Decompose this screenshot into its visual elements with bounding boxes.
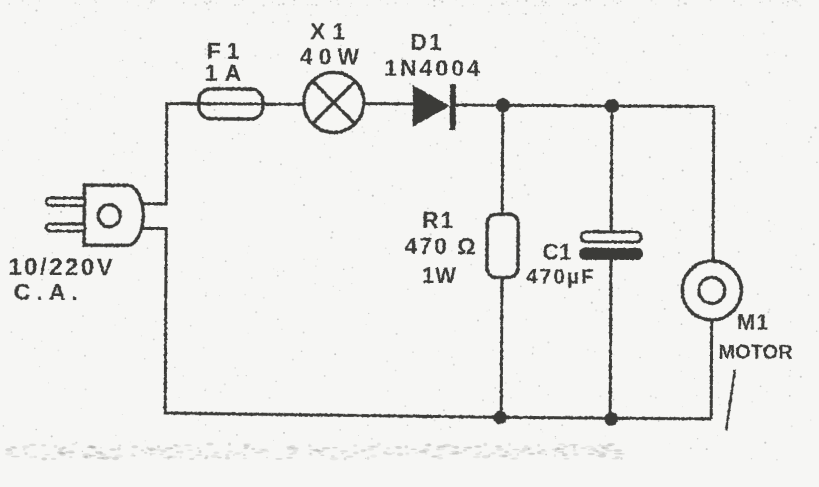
capacitor C1 bbox=[579, 232, 643, 260]
junction: node at C1 top bbox=[605, 99, 619, 113]
svg-text:D1: D1 bbox=[410, 29, 444, 55]
junction: node at R1 bottom bbox=[493, 410, 507, 424]
wire: X1 to D1 bbox=[365, 102, 413, 105]
junction: node at C1 bottom bbox=[604, 412, 618, 426]
label 40W bbox=[300, 43, 365, 69]
label R1 bbox=[422, 207, 456, 233]
AC plug body bbox=[84, 185, 143, 245]
wire: R1 branch top bbox=[501, 105, 505, 214]
label F1 bbox=[207, 38, 246, 64]
fuse F1 bbox=[199, 89, 263, 119]
svg-text:1A: 1A bbox=[205, 60, 249, 86]
label M1 bbox=[737, 310, 770, 335]
label 470µF bbox=[526, 265, 596, 288]
svg-text:470 Ω: 470 Ω bbox=[404, 233, 477, 259]
svg-text:40W: 40W bbox=[300, 43, 365, 69]
wire: motor bottom to bottom rail bbox=[710, 319, 714, 418]
svg-text:C1: C1 bbox=[542, 239, 572, 265]
svg-text:10/220V: 10/220V bbox=[8, 254, 115, 282]
label 10/220V bbox=[8, 254, 115, 282]
plug prong lower bbox=[46, 224, 85, 231]
svg-text:MOTOR: MOTOR bbox=[718, 341, 793, 363]
label X1 bbox=[310, 18, 352, 44]
wire: plug lower terminal bbox=[140, 227, 167, 230]
svg-text:R1: R1 bbox=[422, 207, 456, 233]
label D1 bbox=[410, 29, 444, 55]
svg-text:X1: X1 bbox=[310, 18, 352, 44]
svg-text:1W: 1W bbox=[422, 263, 457, 288]
wire: R1 branch bottom bbox=[500, 277, 504, 417]
svg-text:M1: M1 bbox=[737, 310, 770, 335]
wire: right rail down to motor bbox=[711, 106, 715, 261]
lamp X1 bbox=[304, 72, 364, 132]
diode D1 bbox=[413, 84, 453, 130]
motor M1 bbox=[682, 261, 741, 320]
label C1 bbox=[542, 239, 572, 265]
resistor R1 bbox=[487, 214, 518, 277]
label 470Ω bbox=[404, 233, 477, 259]
label C.A. bbox=[14, 279, 84, 305]
wire: D1 to right corner bbox=[456, 105, 714, 106]
svg-text:1N4004: 1N4004 bbox=[384, 55, 483, 82]
label 1N4004 bbox=[384, 55, 483, 82]
wire: C1 branch top bbox=[610, 106, 614, 232]
plug prong upper bbox=[46, 198, 85, 206]
wire: C1 branch bottom bbox=[609, 260, 613, 419]
junction: node at R1 top bbox=[496, 98, 510, 112]
svg-text:470µF: 470µF bbox=[526, 265, 596, 288]
wire: top rail from left corner through F1 to X1 bbox=[166, 104, 305, 205]
wire: bottom rail bbox=[165, 229, 712, 419]
label 1W bbox=[422, 263, 457, 288]
svg-text:C.A.: C.A. bbox=[14, 279, 84, 305]
label 1A bbox=[205, 60, 249, 86]
wire: plug upper terminal bbox=[140, 202, 167, 205]
leader line below MOTOR bbox=[726, 370, 735, 431]
label MOTOR bbox=[718, 341, 793, 363]
